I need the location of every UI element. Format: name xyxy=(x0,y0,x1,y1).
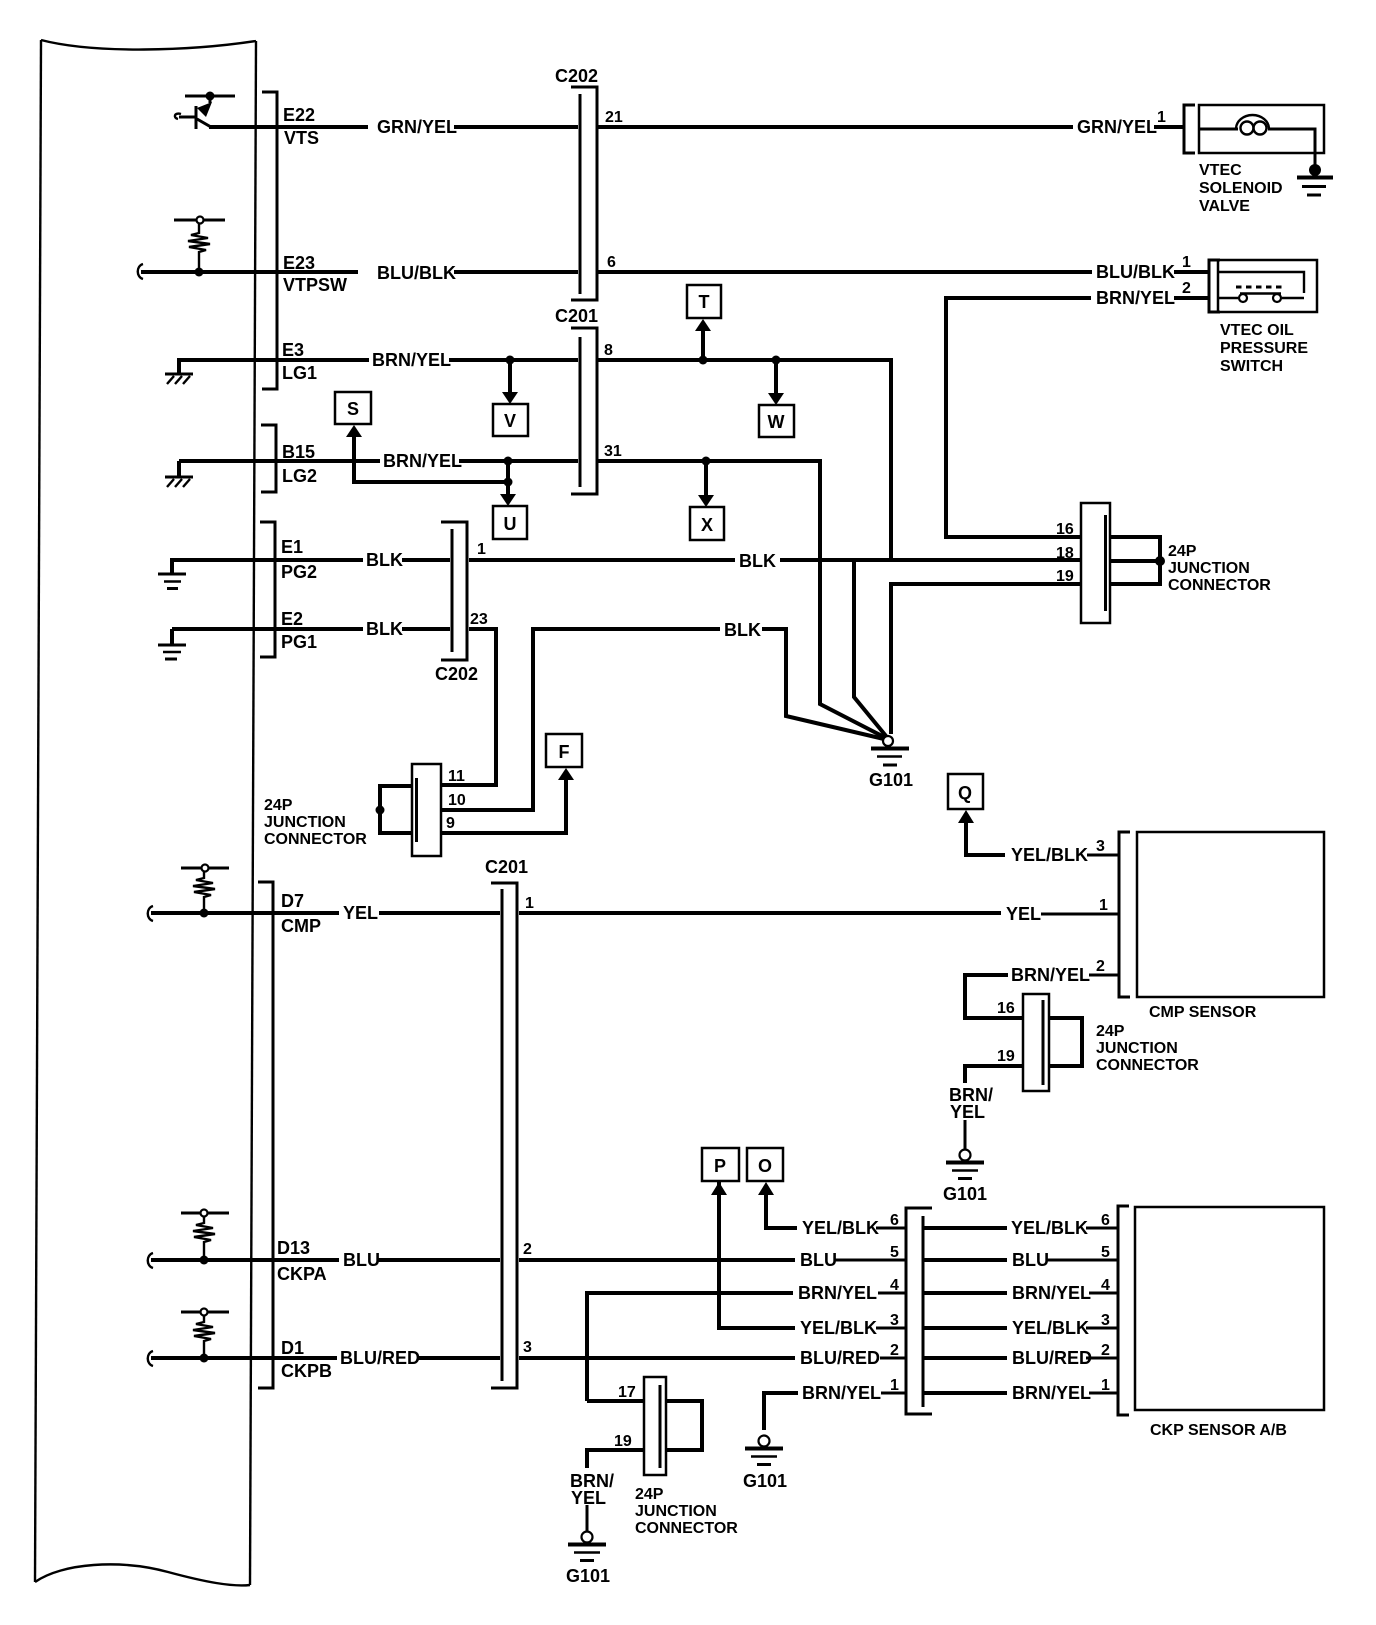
ground G101 (CMP) xyxy=(943,1150,987,1205)
pin number 1 (CMP) xyxy=(1099,897,1108,914)
connector C201 (long) xyxy=(485,857,528,1388)
connector C202 (top) xyxy=(555,66,598,300)
svg-text:JUNCTION: JUNCTION xyxy=(1096,1040,1178,1057)
junction loop (right of bottom 24P) xyxy=(666,1401,702,1450)
label BRN/YEL (pin 4 left) xyxy=(798,1283,877,1303)
wire BLK E1 ground branch xyxy=(854,560,886,736)
resistor pull-up at E23 xyxy=(174,217,225,277)
svg-text:C201: C201 xyxy=(485,857,528,877)
wire YEL/BLK O to 6P pin 6 xyxy=(758,1182,906,1228)
label BLK (pin 10 run) xyxy=(724,620,761,640)
off-page connector W xyxy=(759,405,794,437)
svg-text:19: 19 xyxy=(997,1048,1015,1065)
wire BLK C202 pin 1 to junction pin 18 xyxy=(469,558,1081,562)
label 24P JUNCTION CONNECTOR (left) xyxy=(264,797,367,848)
off-page connector P xyxy=(702,1148,739,1181)
pin number 6 (left) xyxy=(890,1212,899,1229)
pin number 1 (switch) xyxy=(1182,254,1191,271)
svg-text:YEL/BLK: YEL/BLK xyxy=(800,1318,877,1338)
ECM module outline (torn-edge body) xyxy=(35,40,256,1585)
svg-text:CONNECTOR: CONNECTOR xyxy=(264,831,367,848)
svg-text:2: 2 xyxy=(523,1241,532,1258)
label BLU (mid) xyxy=(800,1250,837,1270)
svg-text:C202: C202 xyxy=(435,664,478,684)
svg-text:Q: Q xyxy=(958,783,972,803)
ECM pin bracket E1/E2 xyxy=(260,522,275,657)
pin number 3 (CKP) xyxy=(1101,1312,1110,1329)
svg-text:JUNCTION: JUNCTION xyxy=(1168,560,1250,577)
label BLK (E2) xyxy=(366,619,403,639)
svg-text:YEL/BLK: YEL/BLK xyxy=(802,1218,879,1238)
wire BRN/YEL junction pin 19 to ground xyxy=(965,1066,1023,1150)
label YEL/BLK (pin 6 right) xyxy=(1011,1218,1088,1238)
earth ground at E1 (PG2) xyxy=(158,558,186,589)
svg-text:BLK: BLK xyxy=(366,619,403,639)
svg-text:VALVE: VALVE xyxy=(1199,198,1250,215)
pin label D1/CKPB xyxy=(281,1338,332,1381)
ECM pin bracket E22/E23/E3 xyxy=(262,92,277,389)
svg-text:CMP SENSOR: CMP SENSOR xyxy=(1149,1004,1257,1021)
label BLU/RED (left) xyxy=(340,1348,420,1368)
svg-text:2: 2 xyxy=(1182,280,1191,297)
svg-text:VTEC: VTEC xyxy=(1199,162,1242,179)
pin number 19 (CMP 24P) xyxy=(997,1048,1015,1065)
svg-text:BRN/YEL: BRN/YEL xyxy=(1096,288,1175,308)
label VTEC SOLENOID VALVE xyxy=(1199,162,1283,215)
svg-text:BLK: BLK xyxy=(366,550,403,570)
resistor pull-up at D13 xyxy=(181,1210,229,1265)
wire D1 cut end xyxy=(148,1351,153,1366)
pin number 1 (C202) xyxy=(477,541,486,558)
svg-text:3: 3 xyxy=(523,1339,532,1356)
svg-text:BRN/YEL: BRN/YEL xyxy=(1012,1383,1091,1403)
svg-text:S: S xyxy=(347,399,359,419)
svg-text:G101: G101 xyxy=(943,1184,987,1204)
label BLK (E1) xyxy=(366,550,403,570)
label YEL/BLK (pin 3 right) xyxy=(1012,1318,1089,1338)
24P junction connector (pins 16/19 CMP) xyxy=(1023,994,1049,1091)
label GRN/YEL (left) xyxy=(377,117,457,137)
svg-text:BLU/BLK: BLU/BLK xyxy=(1096,262,1175,282)
label BRN/YEL (CMP pin 2) xyxy=(1011,965,1090,985)
svg-text:CONNECTOR: CONNECTOR xyxy=(1168,577,1271,594)
svg-text:V: V xyxy=(504,411,516,431)
connector 6P inline (CKP) xyxy=(906,1208,932,1414)
label BLU/RED (right) xyxy=(1012,1348,1092,1368)
wire BLK C202 pin 23 to junction pin 11 xyxy=(441,629,496,785)
svg-text:CKP SENSOR A/B: CKP SENSOR A/B xyxy=(1150,1422,1287,1439)
svg-text:C202: C202 xyxy=(555,66,598,86)
wire BLU 6P to CKP pin 5 xyxy=(923,1258,1118,1262)
wire BRN/YEL 6P to CKP pin 4 xyxy=(923,1291,1118,1295)
svg-text:D7: D7 xyxy=(281,891,304,911)
svg-text:CKPB: CKPB xyxy=(281,1361,332,1381)
svg-text:VTPSW: VTPSW xyxy=(283,275,347,295)
VTEC solenoid valve connector bracket xyxy=(1184,105,1195,153)
label BRN/YEL (two line) xyxy=(949,1085,993,1122)
svg-text:17: 17 xyxy=(618,1384,636,1401)
wire BRN/YEL switch pin 2 to junction connector pin 16 xyxy=(946,298,1209,537)
svg-text:SWITCH: SWITCH xyxy=(1220,358,1283,375)
svg-text:VTEC OIL: VTEC OIL xyxy=(1220,322,1294,339)
svg-text:PG2: PG2 xyxy=(281,562,317,582)
pin number 6 (CKP) xyxy=(1101,1212,1110,1229)
pin number 2 (CMP) xyxy=(1096,958,1105,975)
label BLU/RED (mid) xyxy=(800,1348,880,1368)
earth ground at E2 (PG1) xyxy=(158,629,186,659)
wire E23 cut end xyxy=(138,264,143,279)
svg-text:1: 1 xyxy=(1099,897,1108,914)
node W branch xyxy=(768,356,784,406)
svg-text:19: 19 xyxy=(614,1433,632,1450)
ECM pin bracket B15 xyxy=(261,425,276,492)
CKP sensor box xyxy=(1135,1207,1324,1410)
svg-text:11: 11 xyxy=(448,768,465,785)
wire BLU/BLK C202 to VTEC pressure switch pin 1 xyxy=(598,270,1209,274)
pin label B15/LG2 xyxy=(282,442,317,486)
svg-text:U: U xyxy=(504,514,517,534)
label 24P JUNCTION CONNECTOR (bottom) xyxy=(635,1486,738,1537)
chassis ground at B15 (LG2) xyxy=(165,461,193,487)
svg-text:YEL: YEL xyxy=(1006,904,1041,924)
ground G101 (CKP pin 1) xyxy=(743,1436,787,1492)
wire BRN/YEL 6P to CKP pin 1 xyxy=(923,1391,1118,1395)
svg-text:3: 3 xyxy=(1096,838,1105,855)
svg-text:BLK: BLK xyxy=(739,551,776,571)
junction loop (right of CMP 24P) xyxy=(1049,1018,1082,1066)
svg-text:23: 23 xyxy=(470,611,488,628)
wire D13 cut end xyxy=(148,1253,153,1268)
node T branch xyxy=(695,319,711,365)
pin label E2/PG1 xyxy=(281,609,317,652)
svg-text:5: 5 xyxy=(1101,1244,1110,1261)
svg-text:3: 3 xyxy=(1101,1312,1110,1329)
svg-text:31: 31 xyxy=(604,443,622,460)
pin label E22/VTS xyxy=(283,105,319,148)
label 24P JUNCTION CONNECTOR (right) xyxy=(1168,543,1271,594)
svg-text:6: 6 xyxy=(607,254,616,271)
pin number 16 xyxy=(1056,521,1074,538)
svg-text:BLU/RED: BLU/RED xyxy=(1012,1348,1092,1368)
svg-text:BRN/YEL: BRN/YEL xyxy=(383,451,462,471)
svg-text:1: 1 xyxy=(1101,1377,1110,1394)
pin number 17 xyxy=(618,1384,636,1401)
svg-text:10: 10 xyxy=(448,792,466,809)
svg-text:C201: C201 xyxy=(555,306,598,326)
wire YEL/BLK 6P to CKP pin 6 xyxy=(923,1226,1118,1230)
svg-text:O: O xyxy=(758,1156,772,1176)
wire YEL/BLK P to 6P pin 3 xyxy=(711,1182,906,1328)
pin label E23/VTPSW xyxy=(283,253,347,295)
svg-text:CONNECTOR: CONNECTOR xyxy=(635,1520,738,1537)
pin number 5 (CKP) xyxy=(1101,1244,1110,1261)
ground G101 (center) xyxy=(869,736,913,790)
svg-text:LG2: LG2 xyxy=(282,466,317,486)
svg-text:YEL/BLK: YEL/BLK xyxy=(1012,1318,1089,1338)
svg-text:YEL: YEL xyxy=(343,903,378,923)
label YEL/BLK (pin 3 left) xyxy=(800,1318,877,1338)
svg-text:E3: E3 xyxy=(282,340,304,360)
svg-text:BRN/YEL: BRN/YEL xyxy=(1012,1283,1091,1303)
svg-text:G101: G101 xyxy=(869,770,913,790)
wire BRN/YEL C201 pin 8 to junction pin 18 branch xyxy=(598,360,891,561)
pin number 3 (C201) xyxy=(523,1339,532,1356)
svg-text:P: P xyxy=(714,1156,726,1176)
pin number 10 xyxy=(448,792,466,809)
label VTEC OIL PRESSURE SWITCH xyxy=(1220,322,1308,375)
pin number 18 xyxy=(1056,545,1074,562)
wire BLU C201 to 6P pin 5 xyxy=(519,1258,906,1262)
svg-text:1: 1 xyxy=(1157,109,1166,126)
pin number 6 xyxy=(607,254,616,271)
label CMP SENSOR xyxy=(1149,1004,1257,1021)
pin label D13/CKPA xyxy=(277,1238,327,1284)
ground at solenoid valve xyxy=(1297,164,1333,195)
pin label D7/CMP xyxy=(281,891,321,936)
svg-text:F: F xyxy=(559,742,570,762)
wire BLU D13 to C201 pin 2 xyxy=(151,1258,500,1262)
label BRN/YEL (switch pin 2) xyxy=(1096,288,1175,308)
wire YEL/BLK Q to CMP sensor pin 3 xyxy=(958,810,1119,855)
chassis ground at E3 (LG1) xyxy=(165,358,193,384)
pin number 3 (left) xyxy=(890,1312,899,1329)
svg-text:16: 16 xyxy=(997,1000,1015,1017)
label BRN/YEL (two line bottom) xyxy=(570,1471,614,1508)
svg-text:GRN/YEL: GRN/YEL xyxy=(1077,117,1157,137)
off-page connector Q xyxy=(948,774,983,809)
svg-text:18: 18 xyxy=(1056,545,1074,562)
off-page connector U xyxy=(493,506,527,539)
junction jumper bar (left of 24P) xyxy=(376,786,413,833)
wire BLU/BLK E23 to C202 pin 6 xyxy=(141,270,578,274)
svg-text:BRN/YEL: BRN/YEL xyxy=(372,350,451,370)
pin number 1 (C201) xyxy=(525,895,534,912)
junction loop (right of 24P) xyxy=(1110,537,1165,584)
off-page connector T xyxy=(687,285,721,318)
pin label E1/PG2 xyxy=(281,537,317,582)
svg-text:21: 21 xyxy=(605,109,623,126)
24P junction connector (pins 17/19 bottom) xyxy=(644,1377,666,1475)
transistor Q (VTS output driver) xyxy=(175,92,235,130)
pressure switch contacts xyxy=(1218,272,1304,302)
svg-text:16: 16 xyxy=(1056,521,1074,538)
svg-text:4: 4 xyxy=(890,1277,899,1294)
wire YEL C201 to CMP sensor pin 1 xyxy=(519,913,1119,914)
wire D7 cut end xyxy=(148,906,153,921)
svg-text:X: X xyxy=(701,515,713,535)
wire BRN/YEL CMP sensor pin 2 to junction pin 16 xyxy=(965,975,1119,1018)
wire GRN/YEL E22 to C202 pin 21 xyxy=(277,125,578,129)
label BLU (right) xyxy=(1012,1250,1049,1270)
solenoid coil L xyxy=(1199,115,1315,168)
svg-text:BLU/BLK: BLU/BLK xyxy=(377,263,456,283)
svg-text:6: 6 xyxy=(1101,1212,1110,1229)
off-page connector F xyxy=(546,734,582,767)
svg-text:BLU/RED: BLU/RED xyxy=(340,1348,420,1368)
label 24P JUNCTION CONNECTOR (CMP) xyxy=(1096,1023,1199,1074)
svg-text:BLU/RED: BLU/RED xyxy=(800,1348,880,1368)
pin number 2 (left) xyxy=(890,1342,899,1359)
pin number 2 (switch) xyxy=(1182,280,1191,297)
svg-text:1: 1 xyxy=(1182,254,1191,271)
svg-text:2: 2 xyxy=(1096,958,1105,975)
24P junction connector (pins 11/10/9) xyxy=(412,764,441,856)
label BRN/YEL (B15) xyxy=(383,451,462,471)
label YEL (right) xyxy=(1006,904,1041,924)
wire BRN/YEL junction pin 19 to ground xyxy=(587,1450,644,1532)
label YEL/BLK (pin 6 left) xyxy=(802,1218,879,1238)
label BRN/YEL (pin 1 left) xyxy=(802,1383,881,1403)
svg-text:YEL/BLK: YEL/BLK xyxy=(1011,845,1088,865)
svg-text:8: 8 xyxy=(604,342,613,359)
pin number 1 (valve) xyxy=(1157,109,1166,126)
svg-text:BRN/YEL: BRN/YEL xyxy=(802,1383,881,1403)
label YEL/BLK (CMP pin 3) xyxy=(1011,845,1088,865)
label BLU/BLK (right) xyxy=(1096,262,1175,282)
off-page connector S xyxy=(335,392,371,424)
node X branch xyxy=(698,457,714,508)
svg-text:24P: 24P xyxy=(635,1486,664,1503)
svg-text:1: 1 xyxy=(525,895,534,912)
svg-text:SOLENOID: SOLENOID xyxy=(1199,180,1283,197)
wire BRN/YEL E3 to C201 pin 8 xyxy=(179,358,578,362)
svg-text:BRN/YEL: BRN/YEL xyxy=(1011,965,1090,985)
svg-text:2: 2 xyxy=(890,1342,899,1359)
svg-text:YEL/BLK: YEL/BLK xyxy=(1011,1218,1088,1238)
wire E22 emitter to ECM edge xyxy=(209,125,368,129)
label GRN/YEL (right) xyxy=(1077,117,1157,137)
label BLU (left) xyxy=(343,1250,380,1270)
svg-text:YEL: YEL xyxy=(571,1488,606,1508)
svg-text:E2: E2 xyxy=(281,609,303,629)
svg-text:BLU: BLU xyxy=(343,1250,380,1270)
label BRN/YEL (pin 1 right) xyxy=(1012,1383,1091,1403)
svg-text:24P: 24P xyxy=(264,797,293,814)
pin number 9 xyxy=(446,815,455,832)
pin number 16 (CMP 24P) xyxy=(997,1000,1015,1017)
pin number 5 (left) xyxy=(890,1244,899,1261)
off-page connector V xyxy=(493,404,528,436)
wire YEL/BLK 6P to CKP pin 3 xyxy=(923,1326,1118,1330)
svg-text:6: 6 xyxy=(890,1212,899,1229)
svg-text:CKPA: CKPA xyxy=(277,1264,327,1284)
svg-text:24P: 24P xyxy=(1168,543,1197,560)
svg-text:CMP: CMP xyxy=(281,916,321,936)
pin number 31 xyxy=(604,443,622,460)
CMP sensor connector bracket xyxy=(1119,832,1130,997)
svg-text:T: T xyxy=(699,292,710,312)
pin number 21 xyxy=(605,109,623,126)
svg-text:BLK: BLK xyxy=(724,620,761,640)
svg-text:4: 4 xyxy=(1101,1277,1110,1294)
wire BLU/RED C201 to 6P pin 2 xyxy=(519,1356,906,1360)
svg-text:2: 2 xyxy=(1101,1342,1110,1359)
pin number 3 (CMP) xyxy=(1096,838,1105,855)
connector C202 (lower) xyxy=(435,522,478,684)
pin number 23 xyxy=(470,611,488,628)
svg-text:JUNCTION: JUNCTION xyxy=(264,814,346,831)
CKP sensor connector bracket xyxy=(1118,1206,1129,1415)
svg-text:YEL: YEL xyxy=(950,1102,985,1122)
svg-text:PG1: PG1 xyxy=(281,632,317,652)
24P junction connector (pins 16/18/19) xyxy=(1081,503,1110,623)
pin number 19 (bottom 24P) xyxy=(614,1433,632,1450)
pin label E3/LG1 xyxy=(282,340,317,383)
wire BRN/YEL B15 to C201 pin 31 xyxy=(179,459,578,463)
svg-text:5: 5 xyxy=(890,1244,899,1261)
off-page connector O xyxy=(747,1148,783,1181)
svg-text:JUNCTION: JUNCTION xyxy=(635,1503,717,1520)
svg-text:G101: G101 xyxy=(743,1471,787,1491)
wire junction pin 9 to F xyxy=(441,768,574,833)
pin number 19 xyxy=(1056,568,1074,585)
svg-text:D13: D13 xyxy=(277,1238,310,1258)
svg-text:CONNECTOR: CONNECTOR xyxy=(1096,1057,1199,1074)
svg-text:VTS: VTS xyxy=(284,128,319,148)
pin number 1 (left) xyxy=(890,1377,899,1394)
svg-text:3: 3 xyxy=(890,1312,899,1329)
off-page connector X xyxy=(690,507,724,540)
ground G101 (bottom) xyxy=(566,1532,610,1587)
resistor pull-up at D7 xyxy=(181,865,229,918)
wire YEL D7 to C201 pin 1 xyxy=(151,911,500,915)
svg-text:W: W xyxy=(768,412,785,432)
wire BLK junction pin 10 to ground run xyxy=(441,629,884,810)
VTEC oil pressure switch box xyxy=(1218,260,1317,312)
label BRN/YEL (E3) xyxy=(372,350,451,370)
svg-text:24P: 24P xyxy=(1096,1023,1125,1040)
svg-text:9: 9 xyxy=(446,815,455,832)
VTEC oil pressure switch connector bracket xyxy=(1209,260,1220,312)
svg-text:LG1: LG1 xyxy=(282,363,317,383)
svg-text:G101: G101 xyxy=(566,1566,610,1586)
wire GRN/YEL C202 to VTEC solenoid valve xyxy=(598,125,1184,129)
label BRN/YEL (pin 4 right) xyxy=(1012,1283,1091,1303)
svg-text:E1: E1 xyxy=(281,537,303,557)
resistor pull-up at D1 xyxy=(181,1309,229,1363)
node V branch xyxy=(502,356,518,405)
pin number 8 xyxy=(604,342,613,359)
svg-text:1: 1 xyxy=(477,541,486,558)
connector C201 (top) xyxy=(555,306,598,494)
node S/U branch xyxy=(346,425,516,506)
svg-text:19: 19 xyxy=(1056,568,1074,585)
label YEL (left) xyxy=(343,903,378,923)
svg-text:BLU: BLU xyxy=(800,1250,837,1270)
wire BLK E1 to C202 pin 1 xyxy=(172,558,450,562)
ECM pin bracket D7/D13/D1 xyxy=(258,882,273,1388)
svg-text:GRN/YEL: GRN/YEL xyxy=(377,117,457,137)
svg-text:D1: D1 xyxy=(281,1338,304,1358)
label CKP SENSOR A/B xyxy=(1150,1422,1287,1439)
label BLK (pin 18 run) xyxy=(739,551,776,571)
wire junction pin 17 stub xyxy=(587,1399,644,1403)
wire BRN/YEL junction 17 riser to 6P pin 4 xyxy=(587,1293,906,1401)
wire junction pin 19 to ground G101 xyxy=(891,584,1081,734)
pin number 4 (left) xyxy=(890,1277,899,1294)
VTEC solenoid valve box xyxy=(1199,105,1324,153)
pin number 2 (CKP) xyxy=(1101,1342,1110,1359)
wire BRN/YEL C201 pin 31 to ground run xyxy=(598,461,886,738)
pin number 11 xyxy=(448,768,465,785)
label BLU/BLK (left) xyxy=(377,263,456,283)
svg-text:PRESSURE: PRESSURE xyxy=(1220,340,1308,357)
wire BLU/RED 6P to CKP pin 2 xyxy=(923,1356,1118,1360)
svg-text:1: 1 xyxy=(890,1377,899,1394)
pin number 2 (C201) xyxy=(523,1241,532,1258)
wire BRN/YEL ground to 6P pin 1 xyxy=(764,1393,906,1430)
svg-text:E22: E22 xyxy=(283,105,315,125)
